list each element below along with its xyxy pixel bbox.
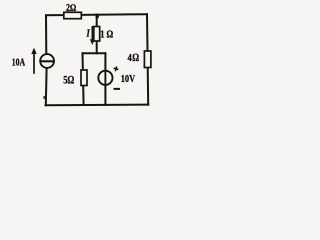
wire right branch: [147, 14, 148, 104]
voltage source inner bar: [104, 70, 106, 86]
node junction dot: [96, 15, 99, 18]
wire middle bar: [83, 52, 106, 54]
wire left branch upper: [45, 15, 47, 54]
voltage source US 10V circle: [98, 71, 112, 85]
svg-text:10V: 10V: [121, 74, 136, 85]
svg-text:4Ω: 4Ω: [128, 52, 140, 64]
svg-text:5Ω: 5Ω: [63, 74, 74, 86]
wire 10V branch lower: [104, 86, 106, 105]
resistor R2 1ohm: [94, 27, 100, 42]
wire top: [46, 14, 147, 15]
label minus: [114, 88, 121, 90]
wire bottom: [46, 104, 149, 107]
current I arrow: [90, 26, 95, 45]
wire 1-ohm branch: [96, 15, 98, 54]
current source arrow 10A: [31, 48, 36, 74]
wire left branch lower: [45, 68, 48, 105]
svg-text:10A: 10A: [12, 57, 26, 68]
resistor R4 4ohm: [144, 51, 151, 68]
svg-text:1Ω: 1Ω: [100, 30, 115, 41]
wire 10V branch upper: [104, 53, 106, 70]
label plus: [113, 66, 119, 72]
current source bar: [40, 60, 55, 62]
current source IS 10A circle: [40, 54, 54, 68]
resistor R1 2ohm: [64, 12, 82, 18]
scan speck on left wire: [43, 96, 45, 99]
svg-text:2Ω: 2Ω: [66, 2, 76, 13]
wire 5-ohm branch: [83, 53, 84, 105]
resistor R3 5ohm: [81, 70, 87, 86]
